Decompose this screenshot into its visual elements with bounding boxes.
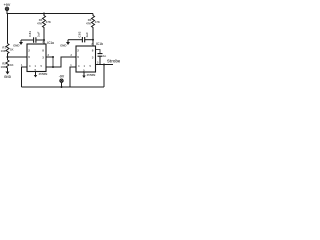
- svg-text:3: 3: [92, 55, 94, 59]
- svg-text:10K: 10K: [1, 49, 6, 53]
- svg-text:5: 5: [90, 64, 92, 68]
- wire R1 to junction: [7, 55, 9, 60]
- svg-text:6: 6: [28, 55, 30, 59]
- svg-text:1K: 1K: [10, 63, 14, 67]
- svg-text:GND: GND: [13, 43, 19, 47]
- svg-text:GND: GND: [4, 75, 12, 79]
- node pin3: [52, 56, 54, 58]
- IC2 pin labels: [77, 42, 94, 72]
- power terminal +9V: [4, 3, 11, 11]
- node output: [103, 64, 105, 66]
- svg-text:IC1a: IC1a: [47, 41, 54, 45]
- IC1 pin5 stub + ground: [34, 72, 37, 78]
- wire C1 left: [21, 39, 34, 41]
- node rail terminal: [61, 86, 63, 88]
- wire left branch down: [7, 14, 9, 44]
- wire C1 right to node: [36, 39, 44, 41]
- svg-text:C82: C82: [78, 31, 82, 37]
- svg-text:2: 2: [28, 49, 30, 53]
- svg-text:3: 3: [42, 55, 44, 59]
- wire ground rail: [22, 86, 105, 88]
- svg-text:5: 5: [41, 64, 43, 68]
- ground C2: [60, 40, 70, 48]
- svg-text:4556N: 4556N: [87, 73, 96, 77]
- wire pin3 to lower net: [52, 57, 54, 67]
- svg-text:4556N: 4556N: [39, 72, 48, 76]
- IC2 pin5 stub + ground: [82, 72, 85, 78]
- svg-text:Strobe: Strobe: [107, 58, 120, 63]
- svg-text:8: 8: [92, 49, 94, 53]
- pin 3 stub: [46, 56, 53, 58]
- capacitor C1: [28, 31, 41, 43]
- svg-text:IC1b: IC1b: [96, 42, 103, 46]
- IC1 ground pin wire: [22, 67, 28, 87]
- node lower net: [52, 66, 54, 68]
- ground C1: [13, 40, 23, 47]
- pin 3 output stub IC2: [96, 64, 114, 66]
- node R3/C2/pin8: [92, 39, 94, 41]
- wire output down: [103, 65, 105, 88]
- svg-text:1K: 1K: [10, 48, 14, 52]
- resistor R1: [1, 44, 14, 56]
- svg-text:47K: 47K: [86, 22, 91, 26]
- svg-text:GND: GND: [60, 43, 66, 47]
- IC U2 555 timer box: [76, 46, 96, 72]
- svg-text:47K: 47K: [46, 20, 51, 24]
- svg-text:-9V: -9V: [59, 74, 65, 78]
- IC1 pin labels: [28, 40, 44, 72]
- svg-text:+9V: +9V: [4, 3, 11, 7]
- resistor R3: [86, 14, 100, 47]
- svg-text:C81: C81: [28, 31, 32, 37]
- capacitor C3 output: [96, 50, 107, 65]
- wire junction to IC1 pin 2: [8, 56, 28, 58]
- IC U1 555 timer box: [27, 44, 46, 72]
- svg-text:4: 4: [78, 64, 80, 68]
- svg-text:1uF: 1uF: [37, 31, 41, 37]
- svg-text:47K: 47K: [95, 20, 100, 24]
- wire C2 left: [68, 39, 82, 41]
- svg-text:2: 2: [77, 49, 79, 53]
- ground terminal -9V: [59, 74, 65, 87]
- ground left: [4, 72, 12, 80]
- node rail-R1 junction: [43, 13, 45, 15]
- resistor R2: [0, 60, 13, 72]
- svg-text:1: 1: [84, 64, 86, 68]
- wire top rail: [7, 11, 93, 14]
- IC2 ground pin wire: [70, 67, 76, 87]
- svg-text:10K: 10K: [0, 65, 5, 69]
- svg-text:1uF: 1uF: [85, 32, 89, 38]
- capacitor C2: [78, 31, 89, 42]
- node divider junction: [7, 56, 9, 58]
- svg-text:4: 4: [29, 64, 31, 68]
- wire C2 right to node: [85, 39, 93, 41]
- svg-text:47K: 47K: [37, 22, 42, 26]
- svg-text:8: 8: [42, 49, 44, 53]
- wire IC1 lower pin to IC2: [46, 57, 76, 67]
- svg-text:6: 6: [77, 55, 79, 59]
- resistor R4: [37, 14, 51, 45]
- node R4/C1/pin8: [43, 39, 45, 41]
